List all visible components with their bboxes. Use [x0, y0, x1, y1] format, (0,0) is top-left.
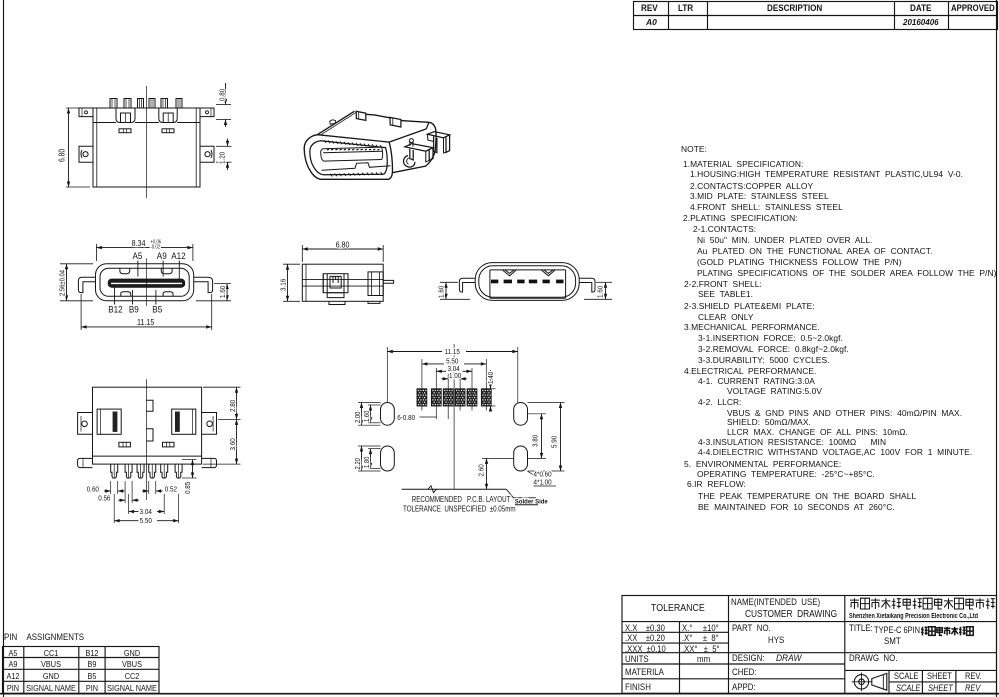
- side view rear block: [368, 272, 383, 296]
- title block outer and grid: [622, 596, 997, 694]
- dimensions 2.20 / 1.80 lower-left hole: [358, 445, 381, 447]
- dimension 3.04 bottom: [128, 494, 130, 514]
- dimension 11.15 bottom: [80, 294, 82, 330]
- dimension 3.16 left of side view: [283, 263, 300, 265]
- side view solder pin extending right: [383, 280, 393, 283]
- iso inner opening wall: [310, 141, 387, 175]
- iso rear right side edge: [392, 150, 435, 173]
- view: rear view outer shell: [475, 263, 579, 301]
- top view U-shaped cutout right: [159, 108, 177, 123]
- iso contact marks on tongue top: [327, 148, 329, 151]
- top view right middle ear with hole: [200, 146, 214, 162]
- front view center line: [146, 258, 148, 306]
- iso top edge with bends: [366, 114, 390, 118]
- top view right upper ear: [200, 108, 214, 117]
- dimension 2.56±0.04 left: [60, 263, 93, 265]
- NOTE text block: [0, 0, 999, 1]
- fake CJK company name glyphs: [850, 598, 859, 609]
- top view small latch window left: [119, 129, 131, 133]
- dimension 1.60 right: [214, 283, 231, 285]
- dimension 2.60: [482, 457, 514, 459]
- top view U-shaped cutout left: [116, 108, 135, 123]
- front view tongue (filled): [108, 279, 185, 287]
- PCB layout mounting holes (stadium slots): [381, 403, 395, 426]
- dimension 6.80 top of side view: [301, 245, 303, 262]
- front view top bumps: [120, 268, 130, 273]
- rear view left leg: [459, 278, 475, 292]
- iso top ridge: [317, 111, 354, 135]
- rear view solder pads (filled dashes): [491, 280, 498, 284]
- bottom view left middle ear: [78, 413, 93, 435]
- front view inner shell: [100, 268, 189, 296]
- third angle projection symbol: [854, 675, 868, 689]
- side view center clip mechanism: [323, 274, 348, 293]
- dimension 5.50 PCB: [421, 359, 423, 411]
- pin assignments table grid: [3, 647, 160, 694]
- PCB layout center line: [453, 344, 455, 489]
- iso small post with round cap: [410, 141, 413, 147]
- dimension 11.15 PCB: [386, 347, 388, 403]
- dimension 1.20 right of top view: [216, 145, 232, 147]
- dimension 8.34 +0.06 -0.02 top: [95, 244, 97, 261]
- top view inner side walls: [96, 108, 98, 187]
- dimension 1.60 right of rear view: [596, 281, 612, 283]
- iso right near leg lower (bracket with hook): [405, 144, 433, 152]
- frame bottom border: [0, 693, 999, 695]
- top view left middle ear with hole: [79, 146, 93, 162]
- bottom view latch windows: [119, 442, 130, 447]
- PIN ASSIGNMENTS title: [4, 633, 84, 642]
- top view small latch window right: [162, 129, 174, 133]
- iso top-right edge of front face to rear: [389, 123, 429, 143]
- rear view inner body: [490, 270, 566, 298]
- top view left upper ear: [79, 108, 93, 117]
- front view left solder leg: [78, 277, 95, 292]
- dimension 0.80 top right of top view: [216, 104, 231, 106]
- PCB layout board edge line with solder side leader: [402, 488, 507, 490]
- dimension 2.80 right of bottom view: [203, 386, 241, 388]
- iso top tab 2: [390, 117, 401, 127]
- view: recommended PCB layout - 6 hatched pads: [417, 389, 427, 406]
- side view internal horizontal lines: [302, 278, 383, 280]
- bottom view right middle ear: [202, 413, 217, 435]
- title block texts: [651, 604, 705, 613]
- front view bottom bumps: [121, 292, 131, 297]
- iso small bump on ridge: [330, 120, 336, 124]
- dimension 5.90 right holes: [528, 402, 565, 404]
- dimension 6.80 left of top view: [66, 107, 90, 109]
- bottom view small center tabs: [146, 400, 153, 411]
- side view inner left wall: [305, 264, 307, 301]
- dimension 3.04 PCB: [435, 368, 437, 411]
- rear view hook tabs: [503, 270, 517, 276]
- bottom view center line: [145, 379, 147, 500]
- top view center line: [146, 86, 148, 198]
- view: bottom view body: [93, 387, 202, 464]
- view: side view body: [302, 264, 383, 301]
- bottom view bottom-left ear: [78, 458, 93, 467]
- dimension 3.80 right holes: [528, 413, 547, 415]
- side view bottom feet: [329, 301, 345, 304]
- iso tongue: [323, 147, 382, 161]
- iso hatch marks along lower shell: [330, 174, 332, 177]
- rear view right leg: [579, 278, 595, 292]
- dimension 3.60 right of bottom view: [203, 463, 241, 465]
- iso lower jagged edge: [322, 163, 391, 171]
- bottom view flange line: [93, 455, 202, 457]
- iso hatch marks along top inner edge: [324, 140, 326, 143]
- bottom view left inner block with dark bar: [97, 409, 121, 434]
- view: connector top view - body outline: [93, 108, 200, 187]
- dimension 5.50 bottom: [113, 494, 115, 523]
- iso curl hook under lower leg: [403, 156, 414, 168]
- dimension 1.00 PCB: [447, 374, 449, 411]
- view: isometric 3D view - front face outer shell: [304, 135, 392, 180]
- dimension 1.60 left of rear view: [440, 281, 458, 283]
- view: front view outer shell: [96, 264, 194, 301]
- frame right border: [996, 0, 998, 697]
- bottom view bottom-right ear: [202, 458, 217, 467]
- rear view inner shell line: [479, 266, 576, 297]
- bottom view right inner block with dark bar: [172, 409, 196, 434]
- dimensions 2.00 / 1.60 upper-left hole: [358, 402, 381, 404]
- top view contact tabs on top edge: [110, 99, 117, 109]
- iso top tab 1: [356, 111, 366, 120]
- bottom view 6 solder pins: [111, 464, 118, 478]
- pin assignments table texts: [9, 649, 18, 658]
- frame left border: [3, 0, 5, 697]
- top view interior shelf line: [93, 122, 116, 124]
- iso right rear leg upper (stool bracket): [428, 132, 450, 138]
- front view right solder leg: [194, 277, 213, 292]
- fake bold CJK title glyphs: [921, 627, 928, 636]
- dimension 1.40 PCB (pad height): [483, 388, 496, 390]
